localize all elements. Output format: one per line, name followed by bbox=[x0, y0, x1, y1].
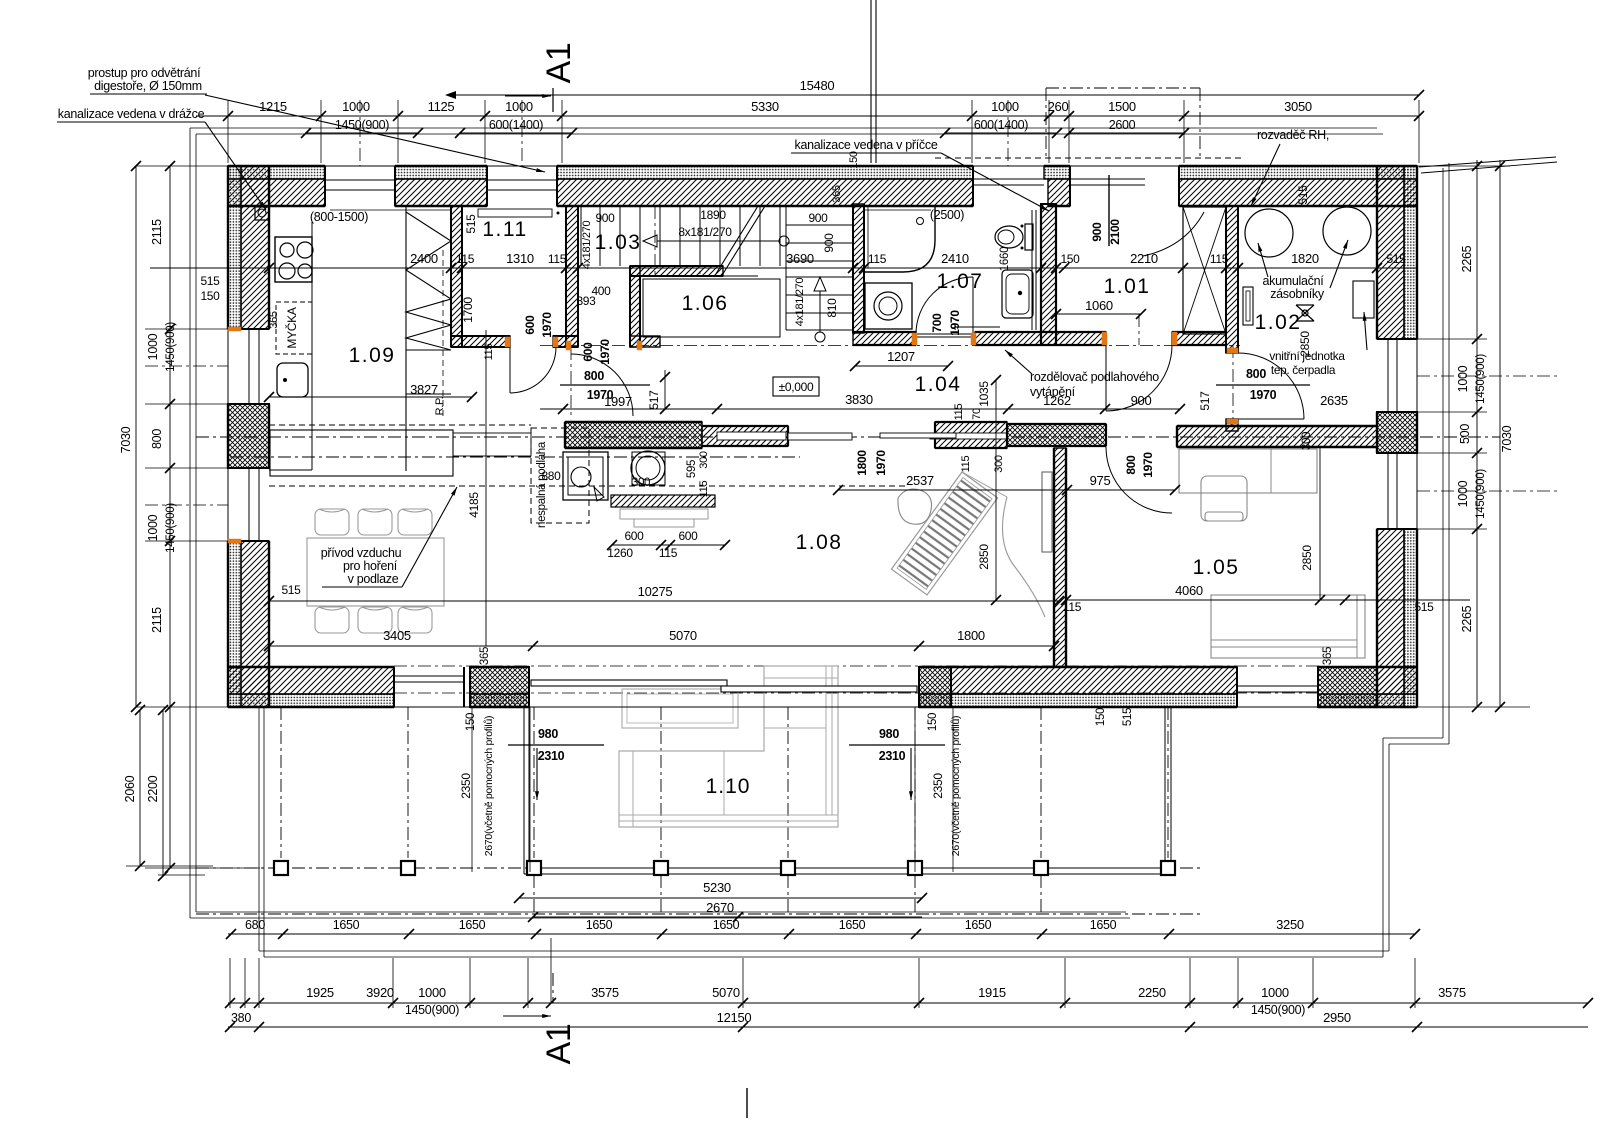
wall 1.01 bottom right piece bbox=[1172, 332, 1226, 345]
svg-text:517: 517 bbox=[647, 390, 661, 410]
svg-text:1.10: 1.10 bbox=[706, 775, 751, 798]
svg-text:2350: 2350 bbox=[931, 773, 945, 799]
svg-text:900: 900 bbox=[808, 211, 828, 225]
svg-text:900: 900 bbox=[595, 211, 615, 225]
left wall face lines bbox=[227, 166, 229, 707]
svg-text:2100: 2100 bbox=[1108, 219, 1122, 245]
TV panel bbox=[1042, 472, 1052, 552]
svg-text:4x181/270: 4x181/270 bbox=[794, 277, 806, 326]
left wall bbox=[228, 166, 241, 329]
pocket slot right bbox=[930, 433, 1007, 439]
svg-text:4x181/270: 4x181/270 bbox=[581, 220, 593, 269]
svg-text:700: 700 bbox=[930, 313, 944, 333]
svg-text:980: 980 bbox=[879, 727, 899, 741]
svg-text:260: 260 bbox=[1048, 99, 1069, 114]
svg-text:±0,000: ±0,000 bbox=[779, 380, 814, 394]
wall 1.03/1.07 vertical bbox=[853, 204, 864, 333]
plusminus box bbox=[773, 377, 819, 396]
svg-text:1060: 1060 bbox=[1085, 298, 1113, 313]
svg-text:1970: 1970 bbox=[540, 312, 554, 338]
svg-text:1970: 1970 bbox=[1250, 388, 1277, 402]
svg-text:150: 150 bbox=[848, 151, 860, 169]
wall around 1.06 bbox=[630, 266, 640, 347]
svg-text:1000: 1000 bbox=[1261, 985, 1289, 1000]
svg-text:v podlaze: v podlaze bbox=[348, 572, 399, 586]
shaft wall 1.07/1.01 bbox=[1041, 204, 1056, 345]
section A1 bottom bbox=[552, 973, 554, 1003]
svg-text:2537: 2537 bbox=[906, 473, 934, 488]
svg-text:150: 150 bbox=[1095, 708, 1107, 726]
wall 1.11/1.03 vertical bbox=[566, 206, 578, 347]
svg-text:1000: 1000 bbox=[1456, 480, 1470, 507]
svg-text:150: 150 bbox=[927, 713, 939, 731]
window axes top bbox=[359, 100, 361, 166]
desk chair bbox=[1201, 476, 1247, 521]
top dim row 15480 bbox=[455, 94, 1419, 96]
svg-text:1125: 1125 bbox=[428, 99, 455, 114]
svg-text:1450(900): 1450(900) bbox=[335, 118, 389, 132]
round stove with flue bbox=[631, 451, 665, 485]
svg-text:365: 365 bbox=[831, 185, 843, 203]
svg-text:1650: 1650 bbox=[1090, 918, 1117, 932]
site boundary thin lines bbox=[190, 127, 1377, 129]
bottom dim row2 bbox=[228, 1026, 1588, 1028]
toilet bbox=[995, 226, 1023, 248]
towel rail bbox=[955, 326, 1000, 328]
svg-text:515: 515 bbox=[200, 274, 220, 288]
svg-text:1650: 1650 bbox=[586, 918, 613, 932]
svg-text:300: 300 bbox=[993, 455, 1005, 473]
svg-text:2310: 2310 bbox=[879, 749, 906, 763]
svg-text:115: 115 bbox=[548, 252, 567, 266]
wall below 1.11 bbox=[451, 336, 510, 347]
svg-text:2200: 2200 bbox=[146, 775, 160, 802]
svg-text:515: 515 bbox=[1296, 185, 1310, 205]
svg-text:115: 115 bbox=[953, 404, 965, 421]
svg-text:1.09: 1.09 bbox=[349, 344, 396, 367]
top wall face lines bbox=[228, 165, 1417, 167]
kitchen island counter bbox=[270, 430, 453, 476]
svg-text:3827: 3827 bbox=[410, 382, 438, 397]
wardrobe X panel 1.01 bbox=[1183, 207, 1226, 334]
interior dim line row y268 bbox=[150, 267, 1417, 269]
svg-text:2850: 2850 bbox=[977, 544, 991, 570]
svg-text:1970: 1970 bbox=[587, 388, 614, 402]
svg-text:2210: 2210 bbox=[1130, 251, 1158, 266]
right wall crosshatch pier bbox=[1377, 412, 1417, 453]
sofa on terrace 1.10 bbox=[619, 666, 838, 827]
svg-text:1.07: 1.07 bbox=[937, 270, 984, 293]
svg-text:2410: 2410 bbox=[941, 251, 969, 266]
svg-text:380: 380 bbox=[231, 1011, 251, 1025]
svg-text:1000: 1000 bbox=[146, 514, 160, 541]
svg-text:A1: A1 bbox=[540, 43, 578, 84]
svg-text:akumulační: akumulační bbox=[1263, 274, 1325, 288]
mid band walls bbox=[565, 422, 702, 448]
svg-text:1000: 1000 bbox=[418, 985, 446, 1000]
chaise lounger striped bbox=[891, 472, 997, 595]
bottom wall face lines bbox=[228, 706, 1417, 708]
svg-text:3575: 3575 bbox=[1438, 985, 1466, 1000]
svg-text:2115: 2115 bbox=[150, 607, 164, 633]
svg-text:2600: 2600 bbox=[1109, 118, 1136, 132]
svg-text:1000: 1000 bbox=[991, 99, 1019, 114]
right wall face lines bbox=[1416, 166, 1418, 707]
stair axis dashdot bbox=[654, 206, 656, 276]
bottom window H bbox=[394, 675, 464, 677]
svg-text:2115: 2115 bbox=[150, 219, 164, 245]
leader to floor air inlet bbox=[322, 586, 402, 588]
floor air duct dashed bbox=[269, 485, 905, 487]
terrace sliding door I bbox=[531, 680, 727, 686]
coffee table terrace bbox=[622, 689, 738, 728]
terrace door J (1.05) bbox=[1237, 685, 1318, 687]
svg-text:150: 150 bbox=[465, 713, 477, 731]
svg-text:3575: 3575 bbox=[591, 985, 619, 1000]
svg-text:1450(900): 1450(900) bbox=[405, 1003, 459, 1017]
svg-text:115: 115 bbox=[868, 252, 887, 266]
svg-text:975: 975 bbox=[1090, 473, 1111, 488]
stairs landing edge bbox=[723, 275, 758, 277]
svg-text:115: 115 bbox=[483, 344, 495, 361]
svg-text:4185: 4185 bbox=[467, 492, 481, 518]
svg-text:15480: 15480 bbox=[800, 78, 835, 93]
svg-text:A1: A1 bbox=[540, 1024, 578, 1065]
svg-text:600: 600 bbox=[678, 529, 698, 543]
extension lines from top bbox=[227, 100, 229, 163]
bottom wall crosshatch piers bbox=[470, 667, 529, 707]
pocket door panel bbox=[788, 433, 852, 440]
fireplace stove bbox=[563, 452, 608, 500]
svg-text:2670(včetně pomocných profilů): 2670(včetně pomocných profilů) bbox=[483, 716, 495, 856]
svg-text:12150: 12150 bbox=[717, 1010, 752, 1025]
svg-text:7030: 7030 bbox=[119, 426, 133, 453]
svg-text:1970: 1970 bbox=[874, 450, 888, 476]
svg-text:3250: 3250 bbox=[1276, 917, 1304, 932]
svg-text:150: 150 bbox=[1060, 252, 1080, 266]
svg-text:tep. čerpadla: tep. čerpadla bbox=[1271, 363, 1336, 377]
svg-text:900: 900 bbox=[1090, 222, 1104, 242]
right dim col bbox=[1476, 160, 1478, 707]
heat pump indoor unit bbox=[1353, 281, 1374, 318]
wall 1.01-1.02 vertical bbox=[1226, 206, 1238, 353]
zigzag wardrobe 1.09 bbox=[405, 206, 407, 471]
kitchen counter line bbox=[311, 222, 313, 470]
svg-text:1925: 1925 bbox=[306, 985, 334, 1000]
bottom dim row1 bbox=[228, 1002, 1588, 1004]
washbasin bbox=[1002, 270, 1033, 318]
svg-text:3405: 3405 bbox=[383, 628, 411, 643]
bed bbox=[1211, 595, 1365, 658]
svg-text:515: 515 bbox=[1122, 708, 1134, 726]
svg-text:115: 115 bbox=[659, 546, 678, 560]
svg-text:1000: 1000 bbox=[342, 99, 370, 114]
door 1.01 arc bbox=[1106, 345, 1172, 411]
svg-text:rozdělovač podlahového: rozdělovač podlahového bbox=[1030, 370, 1159, 384]
svg-text:115: 115 bbox=[1063, 600, 1082, 614]
svg-text:2635: 2635 bbox=[1320, 393, 1348, 408]
pocket panel right bbox=[880, 433, 956, 438]
svg-text:1650: 1650 bbox=[713, 918, 740, 932]
mid band 1007-1106 crosshatch bbox=[1007, 424, 1106, 446]
svg-text:2310: 2310 bbox=[538, 749, 565, 763]
canopy dash-dot rect bbox=[1046, 87, 1200, 89]
svg-text:980: 980 bbox=[538, 727, 558, 741]
svg-text:přívod vzduchu: přívod vzduchu bbox=[321, 546, 402, 560]
kitchen sink bbox=[277, 363, 308, 397]
svg-text:365: 365 bbox=[1322, 647, 1334, 665]
building axes bbox=[196, 436, 1500, 438]
svg-text:810: 810 bbox=[825, 298, 839, 318]
svg-text:3920: 3920 bbox=[366, 985, 394, 1000]
pocket door slot bbox=[717, 432, 786, 440]
svg-text:1660: 1660 bbox=[999, 247, 1011, 271]
left window axes bbox=[145, 365, 228, 367]
svg-text:nespalná podlaha: nespalná podlaha bbox=[536, 441, 548, 528]
svg-text:1000: 1000 bbox=[146, 333, 160, 360]
svg-text:2670: 2670 bbox=[706, 900, 734, 915]
svg-text:115: 115 bbox=[698, 481, 710, 498]
accumulation tank 2 bbox=[1323, 207, 1371, 255]
svg-text:1700: 1700 bbox=[461, 297, 475, 323]
svg-text:680: 680 bbox=[245, 918, 265, 932]
svg-text:1310: 1310 bbox=[506, 251, 534, 266]
left wall crosshatch pier bbox=[228, 404, 269, 468]
right window axes bbox=[1417, 375, 1560, 377]
svg-text:zásobníky: zásobníky bbox=[1270, 287, 1325, 301]
svg-text:1450(900): 1450(900) bbox=[165, 503, 177, 553]
threshold lines 1.07 door bbox=[916, 333, 975, 335]
mid band piece right of opening bbox=[935, 422, 1007, 448]
svg-text:515: 515 bbox=[1386, 252, 1406, 266]
top wall insulation row bbox=[228, 166, 325, 179]
svg-text:800: 800 bbox=[1246, 367, 1266, 381]
svg-text:1.06: 1.06 bbox=[682, 292, 729, 315]
svg-text:300: 300 bbox=[698, 451, 710, 469]
svg-text:rozvaděč RH,: rozvaděč RH, bbox=[1257, 128, 1329, 142]
drain symbol bbox=[1296, 305, 1314, 321]
svg-text:1800: 1800 bbox=[855, 450, 869, 476]
svg-text:1915: 1915 bbox=[978, 985, 1006, 1000]
svg-text:1000: 1000 bbox=[505, 99, 533, 114]
svg-text:115: 115 bbox=[456, 252, 475, 266]
svg-text:3830: 3830 bbox=[845, 392, 873, 407]
svg-text:digestoře, Ø 150mm: digestoře, Ø 150mm bbox=[94, 79, 202, 93]
svg-text:1.03: 1.03 bbox=[595, 231, 642, 254]
left window D bbox=[248, 329, 250, 404]
svg-text:1.11: 1.11 bbox=[482, 218, 527, 241]
dining table bbox=[307, 538, 444, 606]
svg-text:800: 800 bbox=[1124, 455, 1138, 475]
svg-text:150: 150 bbox=[200, 289, 220, 303]
1650 grid dim row bbox=[196, 913, 1200, 915]
orange door jambs bbox=[505, 337, 510, 347]
svg-text:R.P.: R.P. bbox=[434, 396, 446, 415]
left extension lines bbox=[136, 165, 228, 167]
svg-text:(2500): (2500) bbox=[930, 208, 964, 222]
svg-text:115: 115 bbox=[960, 456, 972, 473]
svg-text:pro hoření: pro hoření bbox=[343, 559, 398, 573]
right wall bbox=[1377, 166, 1404, 339]
svg-text:600: 600 bbox=[523, 315, 537, 335]
corridor mid dims row y409 bbox=[540, 408, 1180, 410]
svg-text:5070: 5070 bbox=[669, 628, 697, 643]
top wall window B bbox=[487, 179, 557, 181]
svg-text:1650: 1650 bbox=[965, 918, 992, 932]
svg-text:500: 500 bbox=[1458, 424, 1472, 444]
svg-text:365: 365 bbox=[479, 647, 491, 665]
svg-text:1820: 1820 bbox=[1291, 251, 1319, 266]
svg-text:515: 515 bbox=[1414, 600, 1434, 614]
staircase treads right flight bbox=[786, 224, 853, 226]
plant curve bbox=[1003, 497, 1046, 617]
door 1.02 arc bbox=[1238, 353, 1304, 419]
top dim row2 bbox=[196, 115, 1419, 117]
svg-text:8x181/270: 8x181/270 bbox=[678, 225, 732, 239]
mid band 1177-1377 bbox=[1177, 426, 1377, 447]
svg-text:5230: 5230 bbox=[703, 880, 731, 895]
terrace grid dash verticals bbox=[533, 875, 535, 914]
entrance glazing C bbox=[973, 178, 1044, 180]
svg-text:1500: 1500 bbox=[1108, 99, 1136, 114]
bottom wall bbox=[228, 694, 394, 707]
svg-text:2400: 2400 bbox=[410, 251, 438, 266]
svg-text:800: 800 bbox=[150, 429, 164, 449]
svg-text:1970: 1970 bbox=[948, 310, 962, 336]
svg-text:1.01: 1.01 bbox=[1104, 275, 1151, 298]
svg-text:3050: 3050 bbox=[1284, 99, 1312, 114]
entrance door leaf bbox=[1108, 175, 1110, 246]
svg-text:prostup pro odvětrání: prostup pro odvětrání bbox=[88, 66, 201, 80]
svg-text:2350: 2350 bbox=[459, 773, 473, 799]
small panel on wall bbox=[1243, 287, 1253, 325]
svg-text:70: 70 bbox=[971, 408, 983, 420]
kitchen vent prostup bbox=[255, 207, 269, 220]
right window F bbox=[1387, 339, 1389, 412]
pier extension lines below bottom wall bbox=[471, 707, 473, 872]
svg-text:2060: 2060 bbox=[123, 775, 137, 802]
accumulation tank 1 bbox=[1245, 209, 1293, 257]
right window G bbox=[1387, 453, 1389, 529]
staircase treads upper flight bbox=[599, 206, 601, 266]
washing machine bbox=[865, 283, 912, 329]
fireplace non-combustible floor dashed bbox=[531, 428, 589, 523]
shower corner bbox=[864, 206, 935, 272]
svg-text:300: 300 bbox=[632, 477, 650, 489]
svg-text:515: 515 bbox=[464, 214, 478, 234]
svg-text:1970: 1970 bbox=[1141, 452, 1155, 478]
svg-text:900: 900 bbox=[1131, 393, 1152, 408]
svg-text:1215: 1215 bbox=[259, 99, 287, 114]
door 1.11 arc bbox=[510, 347, 556, 393]
hearth below bbox=[611, 495, 715, 507]
svg-text:1970: 1970 bbox=[598, 339, 612, 365]
door mid band arc bbox=[916, 448, 978, 510]
svg-text:1890: 1890 bbox=[700, 208, 726, 222]
svg-text:600: 600 bbox=[624, 529, 644, 543]
svg-text:2950: 2950 bbox=[1323, 1010, 1351, 1025]
svg-text:600(1400): 600(1400) bbox=[974, 118, 1028, 132]
door arc into 1.05 bbox=[1106, 447, 1172, 513]
svg-text:1650: 1650 bbox=[459, 918, 486, 932]
svg-text:2850: 2850 bbox=[1300, 545, 1314, 571]
svg-text:vytápění: vytápění bbox=[1030, 385, 1076, 399]
door 1.03 to living arc bbox=[571, 354, 633, 416]
svg-text:115: 115 bbox=[1210, 252, 1229, 266]
svg-text:kanalizace vedena v drážce: kanalizace vedena v drážce bbox=[58, 107, 205, 121]
svg-text:600: 600 bbox=[581, 342, 595, 362]
right extension lines bbox=[1417, 165, 1510, 167]
svg-text:5070: 5070 bbox=[712, 985, 740, 1000]
stove 4 rings bbox=[275, 237, 312, 282]
svg-text:1650: 1650 bbox=[333, 918, 360, 932]
svg-text:10275: 10275 bbox=[638, 584, 673, 599]
svg-text:517: 517 bbox=[1198, 391, 1212, 411]
svg-text:900: 900 bbox=[822, 233, 836, 253]
svg-text:1.08: 1.08 bbox=[796, 531, 843, 554]
svg-text:365: 365 bbox=[268, 311, 280, 329]
svg-text:800: 800 bbox=[584, 369, 604, 383]
svg-text:1.02: 1.02 bbox=[1255, 311, 1302, 334]
door 1.07 arc bbox=[916, 277, 973, 334]
svg-text:1.05: 1.05 bbox=[1193, 556, 1240, 579]
svg-text:2265: 2265 bbox=[1460, 245, 1474, 272]
svg-text:300: 300 bbox=[1301, 432, 1313, 450]
svg-text:1260: 1260 bbox=[607, 546, 633, 560]
room 1.06 outline bbox=[643, 279, 780, 337]
svg-text:1800: 1800 bbox=[957, 628, 985, 643]
stair break line bbox=[714, 206, 758, 277]
svg-text:1450(900): 1450(900) bbox=[1475, 354, 1487, 404]
left dim col bbox=[169, 166, 171, 868]
svg-text:880: 880 bbox=[541, 469, 561, 483]
top wall window A bbox=[325, 179, 395, 181]
shelf 1.11 bbox=[478, 209, 552, 217]
svg-text:1.04: 1.04 bbox=[915, 373, 962, 396]
svg-text:1207: 1207 bbox=[887, 349, 915, 364]
svg-text:1035: 1035 bbox=[977, 381, 991, 407]
svg-text:400: 400 bbox=[591, 284, 611, 298]
svg-text:5330: 5330 bbox=[751, 99, 779, 114]
terrace posts bbox=[274, 861, 288, 875]
svg-text:1650: 1650 bbox=[839, 918, 866, 932]
svg-text:1450(900): 1450(900) bbox=[1251, 1003, 1305, 1017]
wall below 1.07 bbox=[853, 332, 916, 345]
dishwasher MYCKA dashed bbox=[276, 302, 312, 354]
terrace slab edge bbox=[523, 707, 525, 874]
svg-text:2265: 2265 bbox=[1460, 605, 1474, 632]
section A1 top bbox=[870, 0, 872, 163]
svg-text:(800-1500): (800-1500) bbox=[310, 210, 368, 224]
svg-text:kanalizace vedena v příčce: kanalizace vedena v příčce bbox=[795, 138, 938, 152]
beanbag blob bbox=[898, 489, 932, 524]
svg-text:MYČKA: MYČKA bbox=[284, 307, 299, 348]
left window E bbox=[248, 468, 250, 541]
svg-text:3690: 3690 bbox=[786, 251, 814, 266]
svg-text:1450(900): 1450(900) bbox=[1475, 469, 1487, 519]
svg-text:600(1400): 600(1400) bbox=[489, 118, 543, 132]
stairs walk line with arrow bbox=[779, 236, 789, 246]
svg-text:2670(včetně pomocných profilů): 2670(včetně pomocných profilů) bbox=[950, 716, 962, 856]
svg-text:7030: 7030 bbox=[1500, 425, 1514, 452]
svg-text:595: 595 bbox=[686, 460, 698, 478]
desk bbox=[1179, 449, 1317, 493]
bottom extension lines bbox=[229, 958, 231, 1008]
svg-text:1000: 1000 bbox=[1456, 365, 1470, 392]
svg-text:4060: 4060 bbox=[1175, 583, 1203, 598]
wall 1.09/1.11 vertical bbox=[451, 206, 462, 347]
dining chairs bbox=[315, 509, 349, 535]
